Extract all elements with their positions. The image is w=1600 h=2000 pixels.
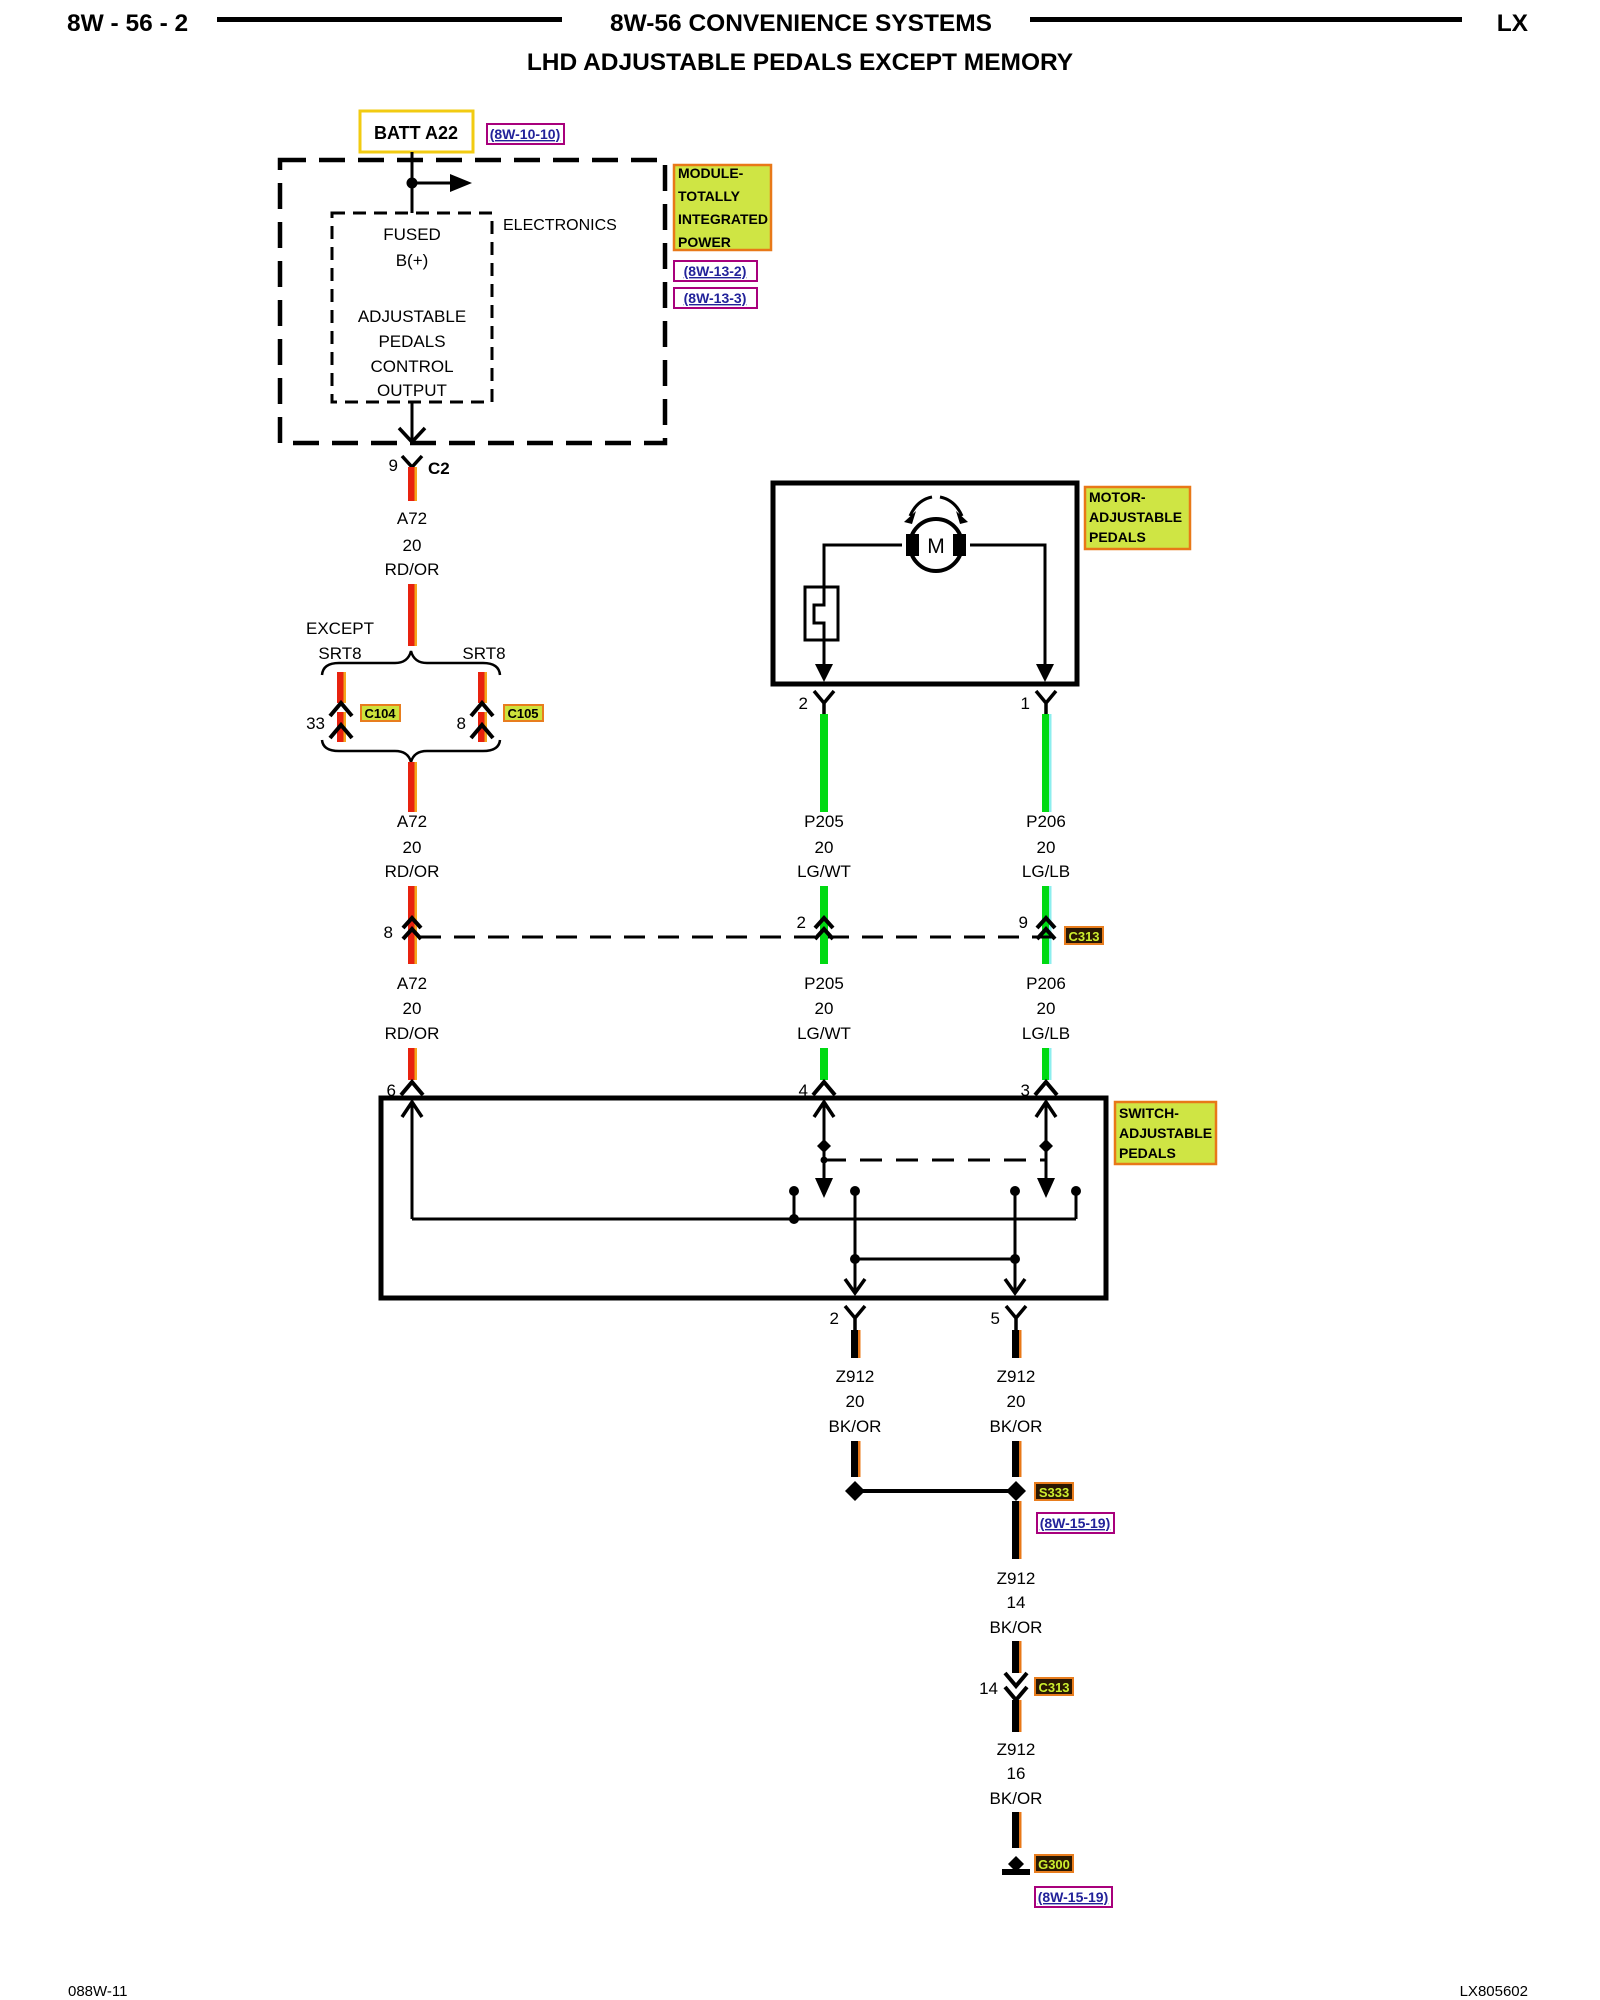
svg-text:A72: A72 [397,509,427,528]
svg-text:(8W-13-2): (8W-13-2) [684,263,747,279]
connector C313 dashed gang line [420,936,1058,939]
wire P205 seg3 [820,1048,828,1080]
wire Z912 seg5 [1012,1700,1022,1732]
connector C2 pin 9 [389,456,450,484]
switch internal: dashed gang link [824,1159,1046,1162]
svg-text:PEDALS: PEDALS [1119,1145,1176,1161]
svg-text:BK/OR: BK/OR [990,1417,1043,1436]
switch contact c to pin5 [1005,1186,1025,1293]
wire P205 LG/WT seg1 [820,714,828,812]
svg-text:ADJUSTABLE: ADJUSTABLE [358,307,466,326]
svg-text:8W-56 CONVENIENCE SYSTEMS: 8W-56 CONVENIENCE SYSTEMS [610,10,992,37]
connector pin 5 below switch [991,1306,1026,1332]
svg-text:20: 20 [403,838,422,857]
svg-text:9: 9 [389,456,398,475]
node junction dot [407,178,418,189]
label C313 [1065,927,1103,944]
svg-text:PEDALS: PEDALS [378,332,445,351]
svg-text:LG/LB: LG/LB [1022,1024,1070,1043]
wire left branch RD/OR upper [337,672,344,703]
connector C313 chevrons pin 9 [1019,913,1055,939]
switch internal: pin6 feed arrow up [402,1102,422,1219]
motor M1 symbol [906,519,966,571]
switch internal: pin3 wiper arrow up [1036,1102,1056,1198]
svg-text:(8W-15-19): (8W-15-19) [1038,1889,1109,1905]
svg-text:LG/LB: LG/LB [1022,862,1070,881]
connector pin 2 of motor [799,691,834,717]
svg-text:20: 20 [815,999,834,1018]
svg-text:P206: P206 [1026,812,1066,831]
connector C105 chevrons pin 8 [457,703,493,738]
svg-text:14: 14 [1007,1593,1026,1612]
svg-text:Z912: Z912 [836,1367,875,1386]
svg-text:20: 20 [1007,1392,1026,1411]
switch pin 4 chevron [799,1081,835,1100]
svg-text:OUTPUT: OUTPUT [377,381,447,400]
svg-text:20: 20 [846,1392,865,1411]
wire motor left lead [824,545,902,587]
motor M1 box: motor adjustable pedals [773,483,1077,684]
svg-text:ADJUSTABLE: ADJUSTABLE [1089,509,1182,525]
wire Z912 left seg2 [851,1441,861,1477]
svg-text:BK/OR: BK/OR [990,1789,1043,1808]
svg-text:14: 14 [979,1679,998,1698]
brace split upper [322,651,500,675]
svg-text:1: 1 [1021,694,1030,713]
splice S333 [845,1481,1026,1501]
svg-text:(8W-10-10): (8W-10-10) [490,126,561,142]
svg-text:A72: A72 [397,974,427,993]
wire A72 RD/OR seg3 [408,762,415,812]
svg-text:20: 20 [1037,838,1056,857]
label C313 lower [1035,1678,1073,1695]
svg-text:2: 2 [797,913,806,932]
ground G300 symbol [1002,1856,1030,1875]
svg-text:SRT8: SRT8 [462,644,505,663]
switch pin 3 chevron [1021,1081,1057,1100]
module label box: MODULE-TOTALLY INTEGRATED POWER [674,165,771,250]
svg-text:M: M [927,535,945,558]
switch internal: common bus wire [412,1218,1076,1221]
wire A72 seg4 [408,886,415,964]
svg-text:20: 20 [815,838,834,857]
switch contact b to pin2 [845,1186,865,1293]
svg-text:G300: G300 [1038,1857,1070,1872]
svg-text:(8W-13-3): (8W-13-3) [684,290,747,306]
switch contact a [789,1186,799,1224]
svg-text:LX805602: LX805602 [1460,1983,1528,2000]
wire Z912 BK/OR right seg1 [1012,1330,1022,1358]
svg-text:SRT8: SRT8 [318,644,361,663]
rotation arrows [910,497,932,516]
wire output arrow to module edge [411,402,414,441]
svg-text:S333: S333 [1039,1485,1069,1500]
svg-text:33: 33 [306,714,325,733]
motor label box: MOTOR-ADJUSTABLE PEDALS [1085,487,1190,549]
wire from BATT A22 into module [411,152,414,213]
svg-text:20: 20 [1037,999,1056,1018]
header rule left [217,17,562,22]
wire P206 LG/LB seg1 [1042,714,1050,812]
svg-text:BK/OR: BK/OR [829,1417,882,1436]
connector pin 2 below switch [830,1306,865,1332]
wire Z912 BK/OR left seg1 [851,1330,861,1358]
svg-text:EXCEPT: EXCEPT [306,619,374,638]
wire Z912 seg4 [1012,1641,1022,1673]
svg-text:B(+): B(+) [396,251,429,270]
svg-text:LHD ADJUSTABLE PEDALS EXCEPT M: LHD ADJUSTABLE PEDALS EXCEPT MEMORY [527,49,1073,76]
module U1 dashed outline: totally integrated power module [280,160,665,443]
svg-text:LX: LX [1497,10,1529,37]
svg-text:Z912: Z912 [997,1740,1036,1759]
wire motor right lead + arrow to pin 1 [970,545,1045,666]
switch pin 6 chevron [387,1081,423,1100]
svg-text:20: 20 [403,536,422,555]
wire right branch RD/OR lower [478,712,485,742]
svg-text:CONTROL: CONTROL [370,357,453,376]
link 8W-13-2 [674,261,757,281]
svg-text:INTEGRATED: INTEGRATED [678,211,768,227]
svg-text:BK/OR: BK/OR [990,1618,1043,1637]
svg-text:8: 8 [457,714,466,733]
svg-text:FUSED: FUSED [383,225,441,244]
svg-text:C313: C313 [1038,1680,1069,1695]
switch internal: pin4 wiper arrow up [814,1102,834,1198]
svg-text:BATT A22: BATT A22 [374,123,458,143]
wire A72 RD/OR seg1 [408,467,415,501]
label C105 [504,705,543,721]
label S333 [1035,1483,1073,1500]
switch S1 box: switch adjustable pedals [381,1098,1106,1298]
connector C313 chevrons pin 14 [979,1673,1027,1700]
svg-text:POWER: POWER [678,234,731,250]
svg-text:20: 20 [403,999,422,1018]
wire Z912 seg6 [1012,1812,1022,1848]
svg-text:LG/WT: LG/WT [797,862,851,881]
switch internal: ground tie bus [855,1258,1015,1261]
svg-text:MOTOR-: MOTOR- [1089,489,1146,505]
connector C313 chevrons pin 8 [384,918,421,942]
switch contact d [1071,1186,1081,1219]
header rule right [1030,17,1462,22]
svg-text:ADJUSTABLE: ADJUSTABLE [1119,1125,1212,1141]
connector C313 chevrons pin 2 [797,913,833,939]
svg-text:2: 2 [799,694,808,713]
svg-text:A72: A72 [397,812,427,831]
wire P206 seg3 [1042,1048,1050,1080]
svg-text:(8W-15-19): (8W-15-19) [1040,1515,1111,1531]
wire A72 seg5 [408,1048,415,1080]
inner dashed block: fused B(+) adjustable pedals control output [332,213,492,402]
wire motor left lead lower + arrow to pin 2 [823,640,826,666]
svg-text:Z912: Z912 [997,1569,1036,1588]
svg-text:C2: C2 [428,459,450,478]
wire P205 seg2 [820,886,828,964]
wire P206 seg2 [1042,886,1050,964]
svg-text:8: 8 [384,923,393,942]
fuse label BATT A22 [360,111,473,152]
svg-text:P205: P205 [804,812,844,831]
svg-text:8W - 56 - 2: 8W - 56 - 2 [67,10,188,37]
switch label box: SWITCH-ADJUSTABLE PEDALS [1115,1102,1216,1164]
svg-text:RD/OR: RD/OR [385,560,440,579]
wire right branch RD/OR upper [478,672,485,703]
wire left branch RD/OR lower [337,712,344,742]
svg-text:16: 16 [1007,1764,1026,1783]
link 8W-15-19 bottom [1035,1887,1112,1907]
svg-text:PEDALS: PEDALS [1089,529,1146,545]
svg-text:ELECTRONICS: ELECTRONICS [503,217,617,234]
svg-text:5: 5 [991,1309,1000,1328]
svg-text:TOTALLY: TOTALLY [678,188,741,204]
svg-text:SWITCH-: SWITCH- [1119,1105,1179,1121]
svg-text:Z912: Z912 [997,1367,1036,1386]
connector C104 chevrons pin 33 [306,703,352,738]
label G300 [1035,1855,1073,1872]
svg-text:MODULE-: MODULE- [678,165,744,181]
link 8W-13-3 [674,288,757,308]
position sensor block [805,587,838,640]
link 8W-15-19 mid [1037,1513,1114,1533]
link 8W-10-10 [487,124,564,144]
svg-text:088W-11: 088W-11 [68,1983,127,2000]
svg-text:P205: P205 [804,974,844,993]
svg-text:LG/WT: LG/WT [797,1024,851,1043]
svg-text:RD/OR: RD/OR [385,862,440,881]
svg-text:2: 2 [830,1309,839,1328]
wire Z912 right seg2 [1012,1441,1022,1477]
svg-text:9: 9 [1019,913,1028,932]
wire Z912 seg3 [1012,1501,1022,1559]
connector pin 1 of motor [1021,691,1056,717]
label C104 [361,705,400,721]
brace merge lower [322,740,500,762]
svg-text:RD/OR: RD/OR [385,1024,440,1043]
svg-text:P206: P206 [1026,974,1066,993]
svg-text:C313: C313 [1068,929,1099,944]
wire A72 RD/OR seg2 [408,584,415,646]
arrow feed right [412,182,450,185]
svg-text:C104: C104 [364,706,396,721]
svg-text:C105: C105 [507,706,538,721]
